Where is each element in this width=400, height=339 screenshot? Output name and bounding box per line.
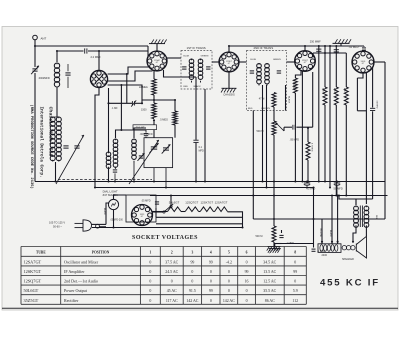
cord loop [96,224,100,228]
svg-text:0: 0 [210,270,212,274]
svg-text:RED: RED [248,108,253,110]
tube V4 50L6GT [352,51,374,73]
resistor R 470M b [335,53,337,87]
wire osc down [95,88,99,188]
wire osc vertical c [126,74,128,103]
svg-text:IF Amplifier: IF Amplifier [64,269,85,274]
svg-text:250 MMF: 250 MMF [310,40,321,44]
svg-text:Rectifier: Rectifier [64,298,79,303]
wire antenna cap line [57,50,84,52]
speaker field coil [318,244,341,253]
svg-text:500 M: 500 M [256,235,263,238]
tube V2 12SK7GT [219,52,239,72]
svg-text:50 MFD: 50 MFD [334,187,343,191]
wire to gang box [153,120,155,125]
tube V5 35Z5GT [132,205,153,226]
svg-text:50L6GT: 50L6GT [24,288,39,293]
variable capacitor C-A [151,146,157,148]
resistor R 470M a [323,87,327,105]
svg-text:0: 0 [228,270,230,274]
capacitor .1 MF osc [109,102,133,104]
output transformer T3 [354,206,359,211]
svg-text:.1 MF: .1 MF [112,107,119,110]
resistor 22 MEG [152,79,156,95]
ground top right [333,42,350,44]
T1 lead to V2 [212,61,219,63]
wire v2 plate [239,61,247,63]
capacitor .1 MFD right [312,248,316,250]
svg-text:16: 16 [245,280,249,284]
wire OT left top [339,196,356,206]
svg-text:Power Output: Power Output [64,288,88,293]
svg-text:0: 0 [246,299,248,303]
wire v1 mid verticals [164,70,197,77]
svg-text:12SQ7GT: 12SQ7GT [24,279,42,284]
wire osc to converter a [108,67,149,74]
resistor 4.7M mid right [307,128,309,142]
wire osc to converter b [108,71,153,81]
svg-text:Oscillator and Mixer: Oscillator and Mixer [64,259,99,264]
trimmer antenna coil [65,72,70,74]
svg-text:45 AC: 45 AC [167,289,177,293]
tube V3 12SQ7GT [295,51,316,72]
oscillator coil [106,152,111,157]
wire osc top [98,51,100,70]
wire osc to converter c [108,85,154,100]
svg-text:142 AC: 142 AC [223,299,235,303]
svg-text:91.5: 91.5 [189,289,196,293]
svg-text:22 MEG: 22 MEG [139,86,148,89]
svg-text:0: 0 [246,289,248,293]
wire v1 right plate [167,57,181,59]
svg-text:4.7 MEG: 4.7 MEG [292,80,294,89]
capacitor 250MMF b [335,46,337,53]
svg-text:142 AC: 142 AC [186,299,198,303]
svg-text:MFD: MFD [199,149,204,152]
tube V1 12SA7GT [147,51,167,71]
rectifier box [126,195,156,222]
bus h2 [95,187,314,189]
wire v3 top [304,46,306,51]
svg-text:8: 8 [294,251,296,255]
svg-text:99: 99 [190,260,194,264]
svg-text:YELLOW: YELLOW [319,228,321,237]
svg-text:BLUE: BLUE [183,55,189,57]
svg-text:0: 0 [294,260,296,264]
svg-text:5: 5 [228,251,230,255]
svg-text:2.2 MMF: 2.2 MMF [91,55,102,59]
wire cord up [106,203,109,224]
svg-text:0: 0 [294,280,296,284]
svg-text:0: 0 [149,289,151,293]
svg-text:0: 0 [149,280,151,284]
speaker wires down [321,219,323,244]
svg-text:.05 MFD: .05 MFD [376,100,378,109]
svg-text:POSITION: POSITION [92,251,110,255]
filament resistor chain [153,211,168,213]
wire y53 [313,52,346,54]
capacitor .1 MFD lower [273,242,275,247]
speaker cone [355,244,357,252]
capacitor 40 MFD electrolytic [306,181,308,183]
resistor 4.7 MEG grid leak [295,71,301,78]
svg-text:.02 MFD: .02 MFD [349,45,359,49]
bus power line [92,227,243,229]
svg-text:0: 0 [210,280,212,284]
svg-text:99: 99 [245,270,249,274]
svg-text:0: 0 [149,299,151,303]
wire left rail [34,46,36,67]
wire v3 grid [312,72,314,127]
gang mechanical link [58,178,152,180]
svg-text:0: 0 [149,270,151,274]
svg-text:International Detrola Corp.: International Detrola Corp. [38,107,43,178]
T1 trimmer right [206,66,210,68]
T2 secondary coil [265,64,270,69]
T1 secondary coil [198,59,203,64]
bus h4 [253,218,385,220]
gang diagonal arrow right [129,140,159,184]
svg-text:470 M: 470 M [333,88,335,94]
svg-text:3: 3 [192,251,194,255]
svg-text:2nd Det.—1st Audio: 2nd Det.—1st Audio [64,279,98,284]
resistor .5 MEG [174,100,176,111]
wire v2 top [228,46,230,52]
ground top converter [149,43,165,45]
svg-text:500 M: 500 M [257,130,264,133]
loop bottom wire [55,162,57,182]
svg-text:SPEAKER: SPEAKER [342,258,354,261]
capacitor .004 [153,119,155,121]
svg-text:CHASSIS: CHASSIS [223,92,235,96]
oscillator socket circle [90,70,107,87]
gang diagonal arrow left [56,135,84,184]
svg-text:1: 1 [149,251,151,255]
svg-text:117 AC: 117 AC [166,299,178,303]
vertical x330 [329,46,331,188]
svg-text:86 AC: 86 AC [265,299,275,303]
svg-text:6: 6 [246,251,248,255]
T2 primary coil [257,64,262,69]
wire top bus y46 [229,45,364,47]
antenna terminal [33,35,38,40]
T2 trimmer left [250,70,254,72]
svg-text:.05 MFD: .05 MFD [290,138,300,141]
svg-text:ANT: ANT [41,37,47,41]
resistor R 400 ohm [345,53,347,87]
svg-text:470 M: 470 M [322,88,324,94]
svg-text:50L6GT: 50L6GT [169,201,180,205]
svg-text:2ND IF TRANS: 2ND IF TRANS [254,46,274,50]
svg-text:0: 0 [246,260,248,264]
svg-text:99: 99 [293,270,297,274]
svg-text:99: 99 [209,289,213,293]
ground lower [268,246,281,248]
svg-text:BLUE: BLUE [250,59,256,61]
capacitor osc padder [113,169,117,171]
chassis ground V2 [228,72,230,88]
svg-text:-4.2: -4.2 [226,260,232,264]
svg-text:12SK7GT: 12SK7GT [24,269,42,274]
svg-text:GREEN: GREEN [273,59,281,61]
wire to right cap [282,243,314,245]
variable capacitor C-B [163,147,169,149]
pot wiper arrow [276,123,284,132]
svg-text:1ST IF TRANS: 1ST IF TRANS [187,46,206,50]
wiper coupling cap [283,127,285,131]
svg-text:12SK7GT: 12SK7GT [200,201,213,205]
svg-text:99: 99 [209,260,213,264]
svg-text:4: 4 [210,251,212,255]
capacitor 2.2 MMF [84,48,86,53]
svg-text:0: 0 [191,270,193,274]
svg-text:12SA7GT: 12SA7GT [24,259,42,264]
wire v4 bottom [357,73,363,78]
svg-text:SOCKET VOLTAGES: SOCKET VOLTAGES [132,235,198,241]
svg-text:2400: 2400 [322,254,328,257]
single coil [132,139,137,144]
svg-text:TUBE: TUBE [36,251,46,255]
svg-text:BLACK: BLACK [194,85,202,88]
svg-text:.0002MFD: .0002MFD [38,77,50,80]
wire black lead [285,85,287,111]
vertical x325 [324,46,326,87]
table bottom rule [2,307,398,309]
switch on volume [163,211,165,213]
svg-text:2: 2 [171,251,173,255]
svg-text:13.5 AC: 13.5 AC [263,270,276,274]
svg-text:GREEN: GREEN [201,55,209,57]
svg-text:4.7 MEG: 4.7 MEG [310,143,312,152]
T2 trimmer right [277,70,281,72]
svg-text:112: 112 [292,299,298,303]
loop antenna [50,117,55,122]
wire osc vertical b [120,85,122,130]
svg-text:.5 MEG: .5 MEG [160,119,169,122]
wire v4 plate to OT [372,67,374,108]
svg-text:37.5 AC: 37.5 AC [165,260,178,264]
svg-text:BLACK: BLACK [288,96,291,104]
svg-text:35.5 AC: 35.5 AC [263,289,276,293]
svg-text:.05 MFD: .05 MFD [141,199,151,202]
trimmer C1 antenna [32,68,37,70]
T1 primary coil [189,59,194,64]
filament return wires [228,212,243,228]
svg-text:5.9: 5.9 [293,289,298,293]
svg-text:1500: 1500 [141,109,147,112]
capacitor 50 MFD electrolytic [336,181,338,183]
trimmer loop A [63,145,68,147]
wire antenna horizontal [35,45,148,47]
wire v4 right [374,61,385,63]
wire pot bottom long [273,135,275,226]
svg-text:.05MFD-200: .05MFD-200 [110,219,123,221]
junction antenna [34,45,36,47]
svg-text:.004 MF: .004 MF [135,126,145,130]
svg-text:(RMA PRODUCTION SOURCE CODE No: (RMA PRODUCTION SOURCE CODE No. 2135) [29,105,34,189]
resistor 500M lower [272,226,276,242]
wire v4 screen down [365,72,367,204]
svg-text:0: 0 [149,260,151,264]
OT bottom leads [353,227,356,242]
svg-text:12.5 AC: 12.5 AC [263,280,276,284]
svg-text:35Z5GT: 35Z5GT [24,298,39,303]
wire osc coil top [116,130,147,138]
trimmer loop B [74,145,79,147]
svg-text:BLACK: BLACK [329,230,332,237]
dial light wires [114,195,127,199]
speaker voice coil [342,246,346,250]
T2 leads down [252,111,254,220]
gang box leads [153,168,155,181]
svg-text:0: 0 [228,280,230,284]
svg-text:12SA7GT: 12SA7GT [215,201,228,205]
svg-text:0: 0 [171,280,173,284]
wire v3 cathode [301,71,303,181]
svg-text:34.5 AC: 34.5 AC [263,260,276,264]
voltage table grid [20,247,22,305]
wire r junction [153,95,155,103]
wire osc feedback vertical [108,88,110,152]
trimmer padder mid [139,155,143,157]
resistor 47 M in T2 [272,93,276,108]
volume control 500M pot [273,107,275,121]
svg-text:RED: RED [183,86,188,88]
svg-text:105 TO 125 V: 105 TO 125 V [49,220,65,224]
svg-text:47 M: 47 M [259,97,265,100]
bus h1 [35,181,385,183]
tuning gang box [144,138,173,168]
svg-text:0: 0 [228,289,230,293]
wire coil to loop [56,88,58,117]
bus h3 [150,195,388,197]
wire osc coil bottoms [108,169,110,182]
wire v1 bottom [153,71,155,79]
antenna coil L1 [54,63,59,68]
ground over table col7 [274,244,276,249]
svg-text:0: 0 [210,299,212,303]
svg-text:12SQ7GT: 12SQ7GT [185,201,198,205]
svg-text:RED: RED [375,215,377,220]
svg-text:455 KC IF: 455 KC IF [320,278,380,289]
svg-text:24.5 AC: 24.5 AC [165,270,178,274]
svg-text:0: 0 [191,280,193,284]
T1 trimmer left [182,66,186,68]
resistor 1500 [152,103,156,119]
T2 lead to V3 [287,61,295,63]
svg-text:BLACK: BLACK [103,208,106,215]
svg-text:50-60 ~: 50-60 ~ [53,224,62,228]
